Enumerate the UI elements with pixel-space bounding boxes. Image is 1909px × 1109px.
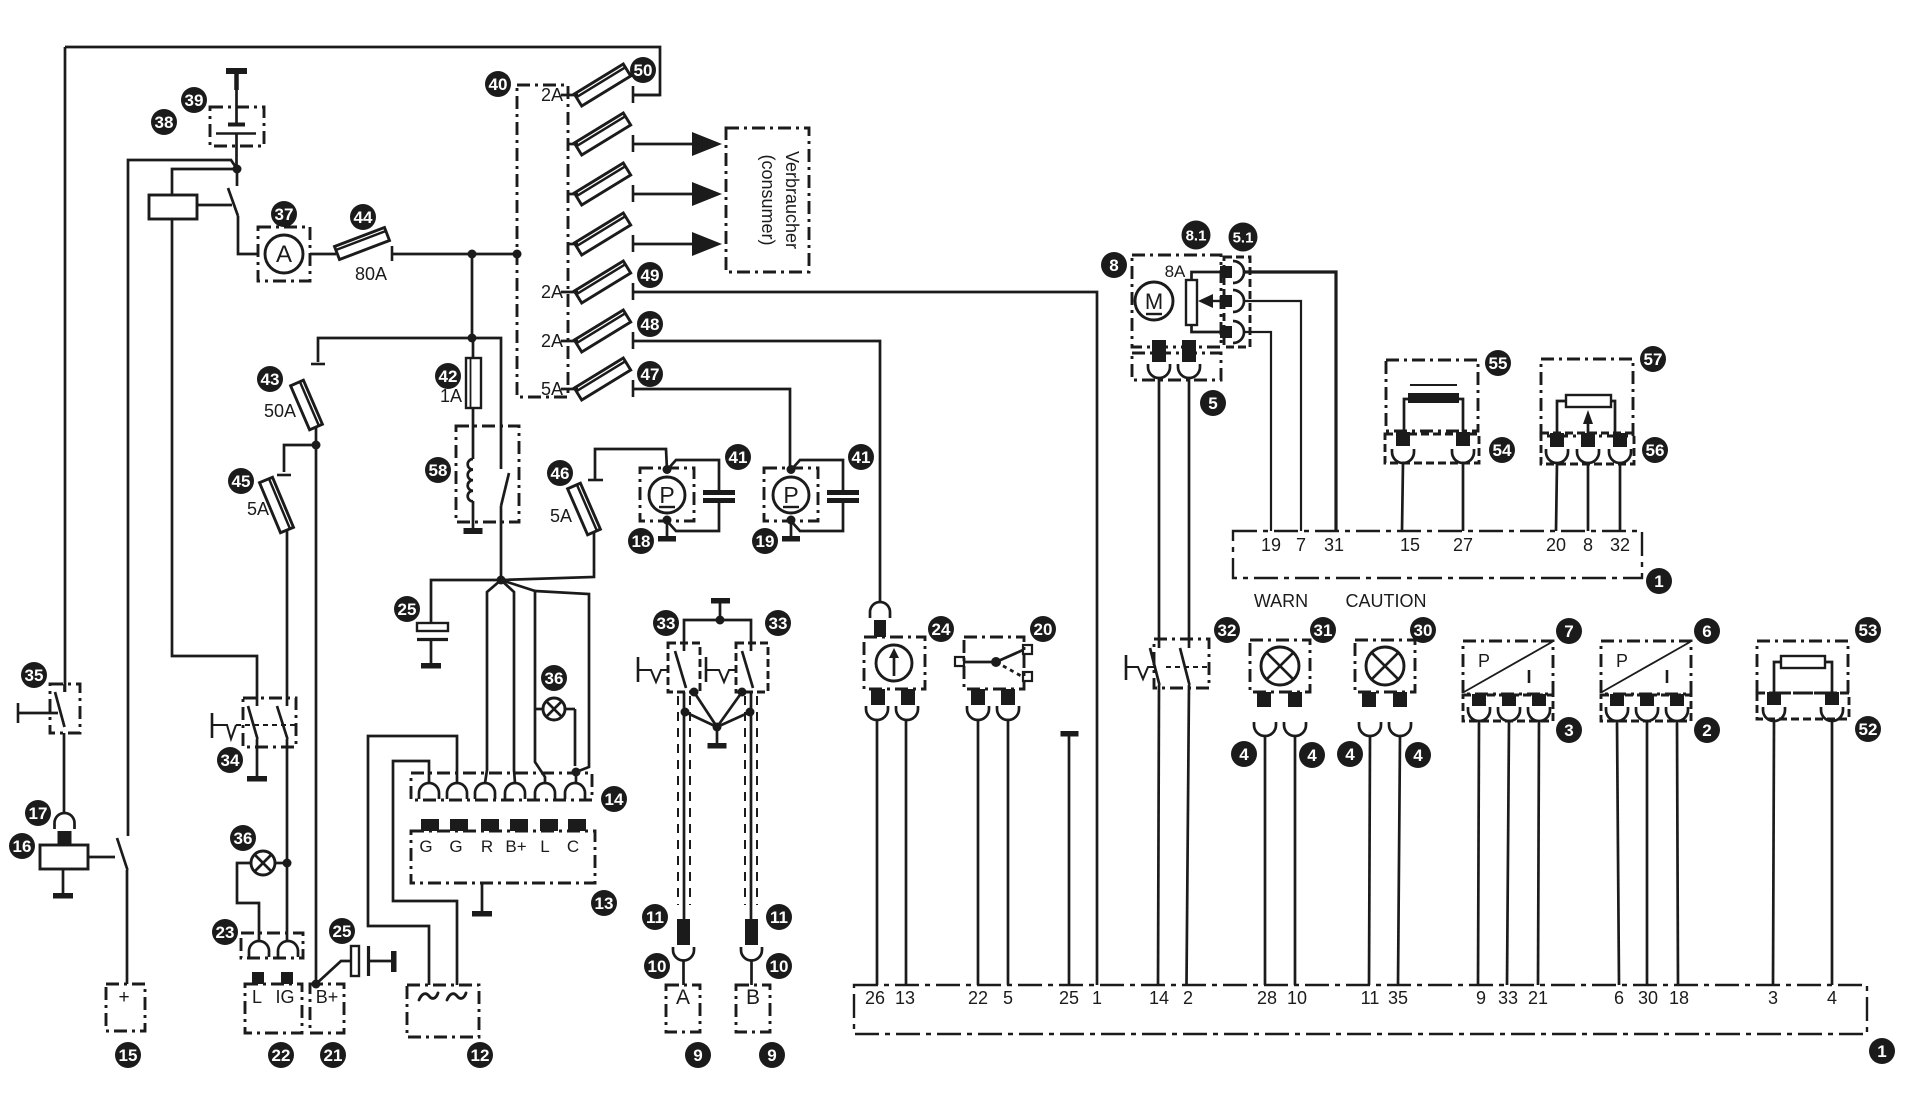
- ground regulator 13: [481, 883, 484, 911]
- svg-text:46: 46: [551, 464, 570, 483]
- wire fuse 49 to connector 1 pin 1: [633, 292, 1097, 985]
- wire pump to switch 32: [1158, 378, 1161, 648]
- svg-text:7: 7: [1296, 535, 1306, 555]
- label 9: [759, 1042, 785, 1068]
- svg-text:33: 33: [1498, 988, 1518, 1008]
- switch 33 left: [668, 643, 700, 692]
- label 49: [637, 262, 663, 288]
- ignition coil A (9): [666, 985, 700, 1032]
- svg-text:5: 5: [1003, 988, 1013, 1008]
- wire pump to connector 1 pin 31: [1244, 272, 1336, 531]
- fuse 43 50A: [291, 380, 323, 430]
- svg-text:56: 56: [1646, 441, 1665, 460]
- connector 5.1: [1224, 257, 1250, 347]
- fuse box 40: [517, 85, 568, 397]
- svg-text:20: 20: [1546, 535, 1566, 555]
- stub fuse row 7: [561, 388, 578, 391]
- pump internal wiring: [1192, 272, 1222, 280]
- wire fuse 43 to junction: [315, 427, 318, 445]
- svg-text:15: 15: [119, 1046, 138, 1065]
- wire down to distribution node: [471, 254, 474, 338]
- svg-text:4: 4: [1345, 745, 1355, 764]
- svg-text:17: 17: [29, 804, 48, 823]
- arrow to consumer: [633, 143, 692, 146]
- svg-text:57: 57: [1644, 350, 1663, 369]
- fuse row 7: [574, 358, 630, 400]
- fuse row 1: [574, 64, 630, 106]
- svg-text:G: G: [449, 837, 462, 856]
- connector 14 socket x=575: [565, 783, 585, 799]
- resistor unit 53: [1757, 641, 1848, 693]
- svg-text:5A: 5A: [541, 379, 563, 399]
- label 11: [642, 904, 668, 930]
- capacitor 25 (main suppressor): [417, 623, 448, 631]
- svg-text:80A: 80A: [355, 264, 387, 284]
- wire junction to fuse 45: [284, 445, 316, 472]
- svg-text:18: 18: [1669, 988, 1689, 1008]
- switch 33 left actuator: [637, 657, 640, 682]
- regulator 13: [411, 831, 595, 883]
- fuse 8A in pump: [1186, 280, 1197, 325]
- connector 14 socket x=545: [535, 783, 555, 799]
- terminal tick fuse 43: [311, 363, 325, 366]
- svg-text:2A: 2A: [541, 331, 563, 351]
- svg-text:CAUTION: CAUTION: [1346, 591, 1427, 611]
- wire to fuse 43: [318, 338, 472, 362]
- label 53: [1855, 617, 1881, 643]
- ammeter 37: [258, 227, 310, 281]
- terminal tick row 7: [632, 380, 635, 397]
- label 16: [9, 833, 35, 859]
- wire fuse 48 to fuel gauge 24: [633, 341, 880, 602]
- pin L of regulator 22: [252, 972, 264, 984]
- label 42: [435, 363, 461, 389]
- relay 58 (charge relay): [456, 426, 519, 522]
- svg-text:2: 2: [1702, 721, 1711, 740]
- svg-text:8: 8: [1109, 256, 1118, 275]
- ground gauge 18: [666, 520, 669, 536]
- terminal 21 (B+): [310, 984, 344, 1033]
- svg-text:WARN: WARN: [1254, 591, 1308, 611]
- svg-text:11: 11: [646, 908, 664, 927]
- svg-text:5A: 5A: [247, 499, 269, 519]
- wire switch 20 to pin 5: [1007, 720, 1010, 985]
- svg-text:A: A: [676, 986, 690, 1009]
- battery 15: [106, 984, 145, 1031]
- lamp 36 right leg: [574, 709, 577, 766]
- svg-text:12: 12: [471, 1046, 490, 1065]
- label 33: [765, 610, 791, 636]
- wire to ignition switch column: [128, 160, 237, 836]
- svg-text:37: 37: [275, 205, 294, 224]
- svg-text:41: 41: [729, 448, 748, 467]
- label 36: [230, 825, 256, 851]
- connector 54: [1385, 434, 1479, 463]
- svg-text:8: 8: [1583, 535, 1593, 555]
- wire node to connector 14 pin B+: [501, 580, 515, 783]
- switch 20 (fuel level contact): [964, 637, 1024, 689]
- svg-text:21: 21: [1528, 988, 1548, 1008]
- alternator 12: [407, 985, 479, 1037]
- switch 33 right actuator: [705, 657, 708, 682]
- terminal tick fuse 44: [391, 246, 394, 261]
- svg-text:28: 28: [1257, 988, 1277, 1008]
- label 47: [637, 361, 663, 387]
- relay 55: [1386, 360, 1478, 431]
- connector pins 11: [677, 919, 690, 945]
- label 8: [1101, 252, 1127, 278]
- connector 14 socket x=457: [447, 783, 467, 799]
- label 1: [1869, 1038, 1895, 1064]
- svg-text:53: 53: [1859, 621, 1878, 640]
- svg-text:G: G: [419, 837, 432, 856]
- wire fuse 47 to gauge 19: [633, 389, 790, 469]
- connector 14 socket x=429: [419, 783, 439, 799]
- svg-text:2A: 2A: [541, 282, 563, 302]
- capacitor 41: [667, 460, 719, 491]
- label 10: [644, 953, 670, 979]
- svg-text:22: 22: [272, 1046, 291, 1065]
- stub fuse row 2: [568, 143, 578, 146]
- svg-text:B: B: [746, 986, 760, 1009]
- svg-text:38: 38: [155, 113, 174, 132]
- label 4: [1337, 741, 1363, 767]
- svg-text:20: 20: [1034, 620, 1053, 639]
- battery positive supply terminal: [226, 68, 247, 74]
- switch 34 actuator: [211, 713, 214, 738]
- wire switch 20 to pin 22: [977, 720, 980, 985]
- junction node battery branch: [233, 165, 242, 174]
- svg-text:31: 31: [1324, 535, 1344, 555]
- connector strip 1 (lower): [854, 985, 1867, 1034]
- label 38: [151, 109, 177, 135]
- pressure gauge 18: [640, 468, 694, 521]
- svg-text:I: I: [1526, 667, 1531, 687]
- label 17: [25, 800, 51, 826]
- label 56: [1642, 437, 1668, 463]
- svg-text:B+: B+: [316, 987, 339, 1007]
- gauge 6 (P/I): [1601, 641, 1691, 694]
- svg-text:11: 11: [1361, 988, 1380, 1008]
- svg-text:13: 13: [595, 894, 614, 913]
- svg-text:10: 10: [648, 957, 667, 976]
- svg-text:44: 44: [354, 208, 373, 227]
- svg-text:21: 21: [324, 1046, 343, 1065]
- wire node to connector 14 pin R: [485, 580, 501, 783]
- wire distribution node to relay 58 switch: [472, 338, 501, 469]
- wire pump to connector 1 pin 19: [1244, 332, 1271, 531]
- arrow to fuse (thermo contact): [1213, 300, 1221, 302]
- svg-text:49: 49: [641, 266, 660, 285]
- label 1: [1646, 568, 1672, 594]
- label 35: [21, 662, 47, 688]
- svg-text:L: L: [252, 987, 262, 1007]
- label 57: [1640, 346, 1666, 372]
- pump motor M: [1135, 282, 1173, 320]
- junction at charge lamp 36: [283, 859, 292, 868]
- pressure gauge 19: [764, 468, 818, 521]
- connector strip 1 (upper): [1233, 531, 1642, 578]
- svg-text:50: 50: [634, 61, 653, 80]
- fuel pump 8: [1132, 255, 1221, 347]
- stub fuse row 6: [561, 340, 578, 343]
- connector 17: [55, 813, 75, 829]
- svg-text:13: 13: [895, 988, 915, 1008]
- wire switch 32 to pin 14: [1158, 685, 1159, 985]
- svg-text:B+: B+: [505, 837, 526, 856]
- svg-text:A: A: [276, 241, 292, 268]
- junction fuse 43/45: [312, 441, 321, 450]
- switch 33 right: [736, 643, 768, 692]
- svg-text:P: P: [1478, 651, 1490, 671]
- label 50: [630, 57, 656, 83]
- svg-text:45: 45: [232, 472, 251, 491]
- capacitor 41: [791, 460, 843, 491]
- label 30: [1410, 617, 1436, 643]
- label 18: [628, 528, 654, 554]
- label 8.1: [1182, 221, 1211, 250]
- label 40: [485, 71, 511, 97]
- svg-text:47: 47: [641, 365, 660, 384]
- stub fuse row 5: [561, 291, 578, 294]
- svg-text:5.1: 5.1: [1233, 229, 1254, 246]
- arrow to consumer: [633, 243, 692, 246]
- junction lamp 36 right: [572, 768, 581, 777]
- svg-text:9: 9: [693, 1046, 702, 1065]
- ignition/starter switch: [117, 838, 128, 870]
- label 23: [212, 919, 238, 945]
- svg-text:27: 27: [1453, 535, 1473, 555]
- junction at B+ terminal: [312, 980, 321, 989]
- wire fuse 50 to frame: [633, 94, 660, 97]
- svg-text:+: +: [118, 987, 129, 1008]
- svg-text:36: 36: [234, 829, 253, 848]
- lamp 36 loop to connector 23: [237, 863, 259, 941]
- wire fuse 45 to switch 34: [286, 530, 289, 698]
- wire switch 34 to charge lamp junction: [286, 747, 289, 941]
- svg-text:48: 48: [641, 315, 660, 334]
- label 5: [1200, 390, 1226, 416]
- connector 56: [1541, 433, 1634, 464]
- label 44: [350, 204, 376, 230]
- label 19: [752, 528, 778, 554]
- relay 58 coil: [468, 459, 473, 501]
- label 13: [591, 890, 617, 916]
- fuse row 2: [574, 113, 630, 155]
- connector 8.1 pins: [1220, 266, 1232, 278]
- fuse 45 5A: [260, 477, 294, 532]
- label 4: [1299, 742, 1325, 768]
- svg-text:26: 26: [865, 988, 885, 1008]
- svg-text:41: 41: [852, 448, 871, 467]
- wire gauge 24 to pin 13: [905, 720, 908, 985]
- ground gauge 19: [790, 520, 793, 536]
- terminal tick row 4: [632, 235, 635, 252]
- wire fuse 44 to fuse box 40: [392, 253, 517, 256]
- svg-text:32: 32: [1610, 535, 1630, 555]
- switch 35 actuator: [17, 703, 20, 723]
- label 11: [766, 904, 792, 930]
- wire node to capacitor 25: [431, 580, 501, 623]
- battery master switch: [236, 169, 239, 186]
- label 21: [320, 1042, 346, 1068]
- relay 58 contact: [501, 473, 509, 506]
- capacitor 25 (noise suppressor at B+): [351, 946, 359, 976]
- svg-text:25: 25: [398, 600, 417, 619]
- svg-text:22: 22: [968, 988, 988, 1008]
- svg-text:1: 1: [1092, 988, 1102, 1008]
- stub fuse row 3: [568, 193, 578, 196]
- label 20: [1030, 616, 1056, 642]
- wire: left frame down to switch 35: [64, 47, 67, 692]
- wire node to fuse 46: [501, 532, 594, 580]
- svg-text:4: 4: [1239, 745, 1249, 764]
- label 34: [217, 747, 243, 773]
- svg-text:11: 11: [770, 908, 788, 927]
- wire fuse 46 to pressure gauge 18: [595, 449, 667, 480]
- ground starter 16: [62, 869, 65, 893]
- svg-text:9: 9: [767, 1046, 776, 1065]
- wire to pin 20: [1556, 463, 1557, 531]
- svg-text:36: 36: [545, 669, 564, 688]
- svg-text:14: 14: [605, 790, 624, 809]
- label 58: [425, 457, 451, 483]
- wire to pin 27: [1462, 463, 1465, 531]
- svg-text:1: 1: [1654, 572, 1663, 591]
- svg-text:30: 30: [1638, 988, 1658, 1008]
- ground capacitor 25: [430, 639, 433, 663]
- wire node through lamp 36 to connector 14 pins L and C: [501, 580, 545, 783]
- terminal tick fuse 46: [588, 479, 603, 482]
- consumer box (Verbraucher): [726, 128, 809, 272]
- stub fuse row 4: [568, 243, 578, 246]
- wire to pin 8: [1587, 463, 1590, 531]
- fuse row 6: [574, 310, 630, 352]
- regulator terminals 22 (L, IG): [245, 984, 302, 1033]
- fuse 44 80A: [335, 228, 390, 260]
- svg-text:4: 4: [1413, 746, 1423, 765]
- fuse 46 5A: [568, 483, 601, 535]
- pin IG of regulator 22: [281, 972, 293, 984]
- ignition coil B (9): [736, 985, 770, 1032]
- svg-text:16: 16: [13, 837, 32, 856]
- svg-text:4: 4: [1827, 988, 1837, 1008]
- svg-text:(consumer): (consumer): [758, 154, 778, 245]
- svg-text:31: 31: [1314, 621, 1333, 640]
- connector 14: [411, 773, 592, 800]
- wire gauge 24 to pin 26: [876, 720, 879, 985]
- svg-text:32: 32: [1218, 621, 1237, 640]
- svg-text:7: 7: [1564, 622, 1573, 641]
- regulator pin x=430: [421, 819, 439, 831]
- switch 34 (double ignition switch): [243, 698, 296, 747]
- svg-text:1A: 1A: [440, 386, 462, 406]
- svg-text:Verbraucher: Verbraucher: [782, 151, 802, 249]
- svg-text:C: C: [567, 837, 579, 856]
- ground switch 34: [256, 747, 259, 776]
- terminal tick row 2: [632, 135, 635, 152]
- wire B+ to capacitor 25: [316, 961, 351, 984]
- wire to pin 15: [1402, 463, 1403, 531]
- regulator pin x=519: [510, 819, 528, 831]
- svg-text:5A: 5A: [550, 506, 572, 526]
- svg-text:R: R: [481, 837, 493, 856]
- label 6: [1694, 618, 1720, 644]
- svg-text:4: 4: [1307, 746, 1317, 765]
- wire fuse 42 to relay 58 coil: [472, 408, 475, 459]
- label 2: [1694, 717, 1720, 743]
- connector 14 socket x=485: [475, 783, 495, 799]
- label 4: [1231, 741, 1257, 767]
- svg-text:24: 24: [932, 620, 951, 639]
- label 54: [1489, 437, 1515, 463]
- label 9: [685, 1042, 711, 1068]
- label 25: [394, 596, 420, 622]
- wire to pin 4: [1831, 721, 1834, 985]
- fuse 42 1A: [472, 338, 475, 358]
- svg-text:23: 23: [216, 923, 235, 942]
- svg-text:52: 52: [1859, 720, 1878, 739]
- svg-text:10: 10: [1287, 988, 1307, 1008]
- wire connector 14 G to alternator: [368, 736, 457, 985]
- relay actuating link: [197, 204, 232, 207]
- svg-text:3: 3: [1564, 721, 1573, 740]
- svg-text:1: 1: [1877, 1042, 1886, 1061]
- svg-text:2: 2: [1183, 988, 1193, 1008]
- svg-text:39: 39: [185, 91, 204, 110]
- svg-text:9: 9: [1476, 988, 1486, 1008]
- wire junction down to regulator B+ terminal 21: [315, 445, 318, 984]
- wire to pin 32: [1619, 463, 1622, 531]
- label 41: [848, 444, 874, 470]
- svg-text:34: 34: [221, 751, 240, 770]
- pin of starter 16: [58, 831, 72, 845]
- label 55: [1485, 350, 1511, 376]
- terminal tick row 6: [632, 332, 635, 349]
- arrow in relay 57: [1587, 424, 1590, 437]
- label 32: [1214, 617, 1240, 643]
- lamp 36 (charge indicator): [543, 698, 565, 720]
- label 4: [1405, 742, 1431, 768]
- connector 23: [241, 933, 303, 958]
- svg-text:54: 54: [1493, 441, 1512, 460]
- label 48: [637, 311, 663, 337]
- wire to relay coil: [172, 169, 237, 195]
- wire: top frame from battery branch to fuse box feed: [65, 47, 660, 95]
- main junction node: [497, 576, 506, 585]
- svg-text:33: 33: [657, 614, 676, 633]
- svg-text:I: I: [1664, 667, 1669, 687]
- label 46: [547, 460, 573, 486]
- label 14: [601, 786, 627, 812]
- svg-text:35: 35: [25, 666, 44, 685]
- battery 39: [210, 107, 264, 146]
- regulator pin x=459: [450, 819, 468, 831]
- svg-text:58: 58: [429, 461, 448, 480]
- label 24: [928, 616, 954, 642]
- starter solenoid 16: [40, 845, 88, 869]
- connector 52: [1757, 693, 1849, 719]
- svg-text:14: 14: [1149, 988, 1169, 1008]
- svg-text:6: 6: [1702, 622, 1711, 641]
- junction distribution node: [468, 334, 477, 343]
- svg-text:IG: IG: [275, 987, 294, 1007]
- shielded wires from switches 33: [683, 692, 686, 919]
- fuse row 3: [574, 163, 630, 205]
- wire to pin 3: [1773, 721, 1774, 985]
- arrow to consumer: [633, 193, 692, 196]
- regulator pin x=577: [568, 819, 586, 831]
